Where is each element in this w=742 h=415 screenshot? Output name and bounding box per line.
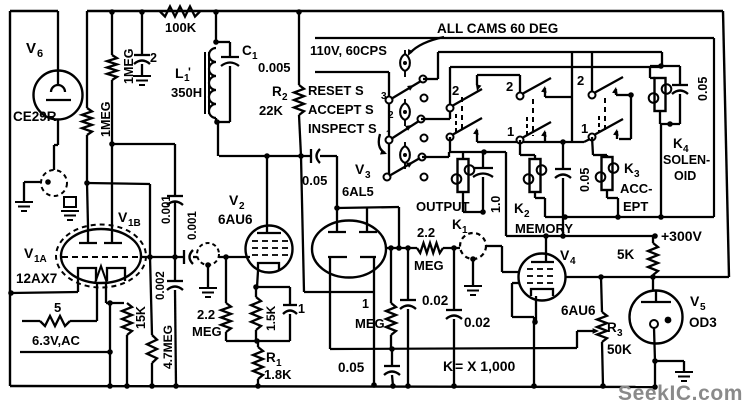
svg-text:0.001: 0.001 xyxy=(187,211,199,240)
svg-text:C: C xyxy=(242,43,252,58)
svg-text:0.05: 0.05 xyxy=(338,360,365,375)
svg-text:5: 5 xyxy=(54,300,61,315)
svg-text:ALL CAMS 60 DEG: ALL CAMS 60 DEG xyxy=(437,21,558,36)
svg-text:K: K xyxy=(673,136,683,151)
svg-text:6AU6: 6AU6 xyxy=(561,303,596,318)
svg-text:6AL5: 6AL5 xyxy=(342,184,374,199)
svg-text:V: V xyxy=(690,293,700,309)
svg-text:V: V xyxy=(355,161,365,177)
svg-text:0.05: 0.05 xyxy=(696,77,710,101)
svg-text:K: K xyxy=(443,358,453,374)
svg-text:R: R xyxy=(266,350,276,365)
svg-text:0.001: 0.001 xyxy=(161,195,173,224)
svg-text:100K: 100K xyxy=(165,20,197,35)
svg-text:MEMORY: MEMORY xyxy=(515,221,573,236)
svg-text:1: 1 xyxy=(362,297,369,311)
svg-text:1.5K: 1.5K xyxy=(264,305,278,331)
svg-text:2: 2 xyxy=(452,83,459,98)
svg-text:3: 3 xyxy=(617,328,623,339)
svg-text:MEG: MEG xyxy=(192,324,222,339)
svg-text:V: V xyxy=(26,40,36,57)
svg-text:6.3V,AC: 6.3V,AC xyxy=(32,333,81,348)
svg-text:2: 2 xyxy=(524,209,530,220)
svg-text:CE29R: CE29R xyxy=(13,109,57,124)
svg-text:50K: 50K xyxy=(607,342,632,357)
svg-text:1A: 1A xyxy=(34,254,47,265)
svg-text:V: V xyxy=(24,245,34,261)
svg-text:350H: 350H xyxy=(171,85,202,100)
svg-text:0.02: 0.02 xyxy=(464,315,490,330)
svg-text:R: R xyxy=(272,84,282,99)
svg-text:1: 1 xyxy=(507,124,514,139)
svg-text:ACC-: ACC- xyxy=(620,181,653,196)
svg-text:SeekIC.com: SeekIC.com xyxy=(618,382,742,405)
svg-text:OID: OID xyxy=(674,169,696,183)
svg-text:OD3: OD3 xyxy=(689,315,717,330)
svg-text:0.05: 0.05 xyxy=(578,168,592,192)
svg-text:6: 6 xyxy=(37,48,43,60)
svg-text:1.0: 1.0 xyxy=(489,196,503,213)
svg-text:0.005: 0.005 xyxy=(258,60,291,75)
svg-text:0.002: 0.002 xyxy=(155,271,167,300)
svg-text:1: 1 xyxy=(462,225,468,236)
svg-text:6AU6: 6AU6 xyxy=(218,212,253,227)
svg-text:5K: 5K xyxy=(617,247,635,262)
svg-text:2: 2 xyxy=(506,79,513,94)
svg-text:K: K xyxy=(452,217,462,232)
svg-text:2: 2 xyxy=(239,201,245,212)
svg-text:': ' xyxy=(188,65,191,79)
svg-text:110V, 60CPS: 110V, 60CPS xyxy=(310,43,387,58)
svg-text:L: L xyxy=(175,65,184,81)
svg-text:SOLEN-: SOLEN- xyxy=(663,153,710,167)
svg-text:K: K xyxy=(514,201,524,216)
svg-text:MEG: MEG xyxy=(355,316,385,331)
svg-text:+300V: +300V xyxy=(661,228,703,244)
svg-text:= X 1,000: = X 1,000 xyxy=(455,358,516,374)
svg-text:4: 4 xyxy=(570,256,576,267)
svg-text:1: 1 xyxy=(298,302,305,316)
svg-text:2: 2 xyxy=(577,73,584,88)
svg-text:4.7MEG: 4.7MEG xyxy=(161,325,175,369)
svg-text:5: 5 xyxy=(700,302,706,313)
svg-text:1MEG: 1MEG xyxy=(122,49,136,84)
svg-text:2: 2 xyxy=(150,51,157,65)
svg-text:INSPECT S: INSPECT S xyxy=(308,121,377,136)
svg-text:V: V xyxy=(118,209,128,225)
svg-text:3: 3 xyxy=(634,169,640,180)
svg-text:1: 1 xyxy=(581,121,588,136)
svg-text:R: R xyxy=(607,320,617,335)
svg-text:RESET S: RESET S xyxy=(308,83,364,98)
svg-text:OUTPUT: OUTPUT xyxy=(416,199,470,214)
svg-text:V: V xyxy=(229,192,239,208)
svg-text:3: 3 xyxy=(365,170,371,181)
svg-text:12AX7: 12AX7 xyxy=(16,271,57,286)
svg-text:0.02: 0.02 xyxy=(422,293,448,308)
svg-text:K: K xyxy=(624,161,634,176)
svg-text:EPT: EPT xyxy=(623,199,648,214)
svg-text:ACCEPT S: ACCEPT S xyxy=(308,102,374,117)
svg-text:2: 2 xyxy=(282,92,288,103)
svg-text:22K: 22K xyxy=(259,103,283,118)
svg-text:2.2: 2.2 xyxy=(417,225,435,240)
svg-text:15K: 15K xyxy=(134,306,148,329)
svg-text:1B: 1B xyxy=(128,218,141,229)
svg-text:2.2: 2.2 xyxy=(197,307,215,322)
svg-text:1.8K: 1.8K xyxy=(264,367,292,382)
svg-text:MEG: MEG xyxy=(414,258,444,273)
svg-text:0.05: 0.05 xyxy=(302,173,327,188)
svg-text:V: V xyxy=(560,247,570,263)
